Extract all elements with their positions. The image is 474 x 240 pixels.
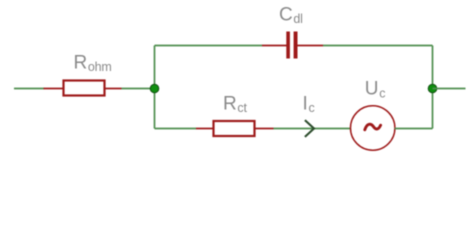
node: right junction dot <box>428 84 437 93</box>
svg-text:Cdl: Cdl <box>279 5 303 27</box>
AC source U_c <box>351 106 395 150</box>
wire: left input lead (green) <box>14 88 44 90</box>
wire: top branch green (junction to capacitor lead) <box>155 45 263 47</box>
wire: right lead of R_ohm (dark red) <box>105 88 122 90</box>
wire: R_ct right lead (dark red) <box>255 128 274 130</box>
wire: bottom branch green (R_ct to source U_c) <box>274 128 351 130</box>
wire: top branch green (capacitor to right corner) <box>323 45 433 47</box>
wire: left vertical branch line <box>154 46 156 129</box>
svg-text:Ic: Ic <box>303 94 315 116</box>
wire: bottom branch green (junction to R_ct lead) <box>155 128 197 130</box>
AC source tilde symbol <box>365 124 381 130</box>
wire: right output lead (green) <box>433 88 466 90</box>
resistor R_ohm <box>64 81 105 96</box>
capacitor C_dl <box>286 32 297 59</box>
wire: capacitor right lead (dark red) <box>298 45 324 47</box>
node: left junction dot <box>150 84 159 93</box>
wire: right vertical branch line <box>432 46 434 129</box>
wire: R_ct left lead (dark red) <box>196 128 214 130</box>
resistor R_ct <box>214 121 255 136</box>
svg-text:Uc: Uc <box>365 79 385 101</box>
wire: left lead of R_ohm (dark red) <box>44 88 64 90</box>
wire: capacitor left lead (dark red) <box>262 45 287 47</box>
svg-text:Rohm: Rohm <box>74 52 112 74</box>
current arrow I_c <box>305 120 314 137</box>
svg-text:Rct: Rct <box>223 94 247 116</box>
wire: green segment to left junction <box>122 88 155 90</box>
wire: source to right vertical (green) <box>395 128 433 130</box>
